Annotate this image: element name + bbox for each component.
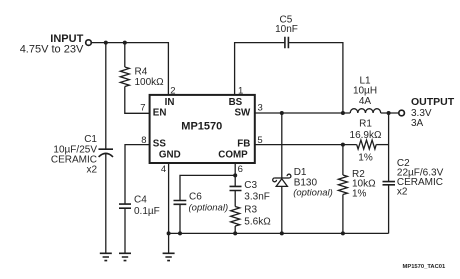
svg-text:6: 6 bbox=[238, 164, 243, 175]
node: output junction bbox=[387, 111, 391, 115]
wire: R4 branch upper bbox=[124, 43, 126, 67]
svg-text:C4: C4 bbox=[134, 195, 147, 206]
svg-text:R4: R4 bbox=[135, 66, 148, 77]
wire: COMP pin 6 to C3 bbox=[234, 163, 236, 186]
wire: C2 lower bbox=[388, 185, 390, 234]
svg-text:4.75V to 23V: 4.75V to 23V bbox=[20, 44, 84, 56]
wire: C1 branch lower bbox=[105, 154, 107, 253]
capacitor C1 bbox=[99, 149, 114, 157]
svg-text:7: 7 bbox=[140, 103, 145, 114]
output terminal bbox=[399, 110, 405, 116]
wire: rail to ground bbox=[168, 233, 170, 253]
wire: SW pin 3 bbox=[255, 112, 350, 114]
svg-text:1: 1 bbox=[238, 86, 243, 97]
svg-text:3A: 3A bbox=[411, 118, 424, 129]
svg-text:100kΩ: 100kΩ bbox=[135, 77, 165, 88]
inductor L1 bbox=[350, 109, 381, 113]
capacitor C6 bbox=[174, 201, 187, 205]
svg-text:MP1570: MP1570 bbox=[181, 121, 222, 133]
svg-text:R1: R1 bbox=[359, 118, 372, 129]
wire: C5 right to SW node bbox=[289, 43, 343, 113]
node: rail at D1 bbox=[280, 231, 284, 235]
wire: C6 lower bbox=[179, 204, 181, 233]
node: FB to R2 bbox=[341, 143, 345, 147]
op-amp U1: MP1570 IC body bbox=[150, 95, 255, 163]
wire: C4 lower bbox=[124, 208, 126, 253]
wire: R2 lower bbox=[342, 195, 344, 234]
wire: C6 branch from COMP bbox=[180, 175, 235, 200]
diode D1 (schottky, optional) bbox=[273, 174, 291, 186]
node: SW to C5 bbox=[341, 111, 345, 115]
capacitor C4 bbox=[119, 204, 131, 208]
svg-text:C6: C6 bbox=[189, 192, 202, 203]
capacitor C3 bbox=[230, 186, 242, 190]
svg-text:R3: R3 bbox=[244, 205, 257, 216]
svg-text:FB: FB bbox=[237, 138, 250, 149]
svg-text:4: 4 bbox=[161, 164, 166, 175]
svg-text:x2: x2 bbox=[86, 165, 97, 176]
wire: C3 to R3 bbox=[234, 191, 236, 207]
resistor R4 bbox=[120, 67, 129, 87]
wire: D1 branch from SW bbox=[281, 113, 283, 178]
svg-text:3.3V: 3.3V bbox=[411, 108, 432, 119]
capacitor C2 bbox=[383, 182, 396, 185]
svg-text:16.9kΩ: 16.9kΩ bbox=[350, 130, 382, 141]
ground: below C1 bbox=[100, 253, 112, 260]
svg-text:3: 3 bbox=[258, 103, 263, 114]
wire: FB pin 5 bbox=[255, 144, 357, 146]
svg-text:(optional): (optional) bbox=[293, 188, 333, 199]
svg-text:8: 8 bbox=[141, 135, 146, 146]
svg-text:OUTPUT: OUTPUT bbox=[411, 96, 455, 108]
node: SW to D1 bbox=[280, 111, 284, 115]
wire: output drop to R1/C2 bbox=[388, 113, 390, 182]
wire: SS pin 8 to C4 bbox=[125, 145, 150, 205]
node: rail at R3 bbox=[233, 231, 237, 235]
node: rail at R2 bbox=[341, 231, 345, 235]
node: COMP to C6 bbox=[233, 173, 237, 177]
svg-text:2: 2 bbox=[170, 86, 175, 97]
wire: R2 upper bbox=[342, 145, 344, 175]
node: rail at pin 4 bbox=[167, 231, 171, 235]
svg-text:C3: C3 bbox=[244, 180, 257, 191]
svg-text:1%: 1% bbox=[352, 188, 367, 199]
wire: L1 to output bbox=[381, 112, 399, 114]
svg-text:10nF: 10nF bbox=[275, 24, 298, 35]
svg-text:GND: GND bbox=[159, 150, 181, 161]
wire: input rail to pin 2 bbox=[92, 43, 169, 95]
wire: BS pin 1 to C5 left bbox=[235, 43, 285, 95]
svg-text:EN: EN bbox=[153, 108, 167, 119]
svg-text:MP1570_TAC01: MP1570_TAC01 bbox=[403, 264, 447, 270]
node: input junction to C1 bbox=[104, 41, 108, 45]
svg-text:COMP: COMP bbox=[218, 150, 248, 161]
svg-text:x2: x2 bbox=[397, 187, 408, 198]
svg-text:SW: SW bbox=[235, 108, 252, 119]
svg-text:IN: IN bbox=[165, 97, 175, 108]
wire: GND pin 4 bbox=[168, 163, 170, 233]
resistor R3 bbox=[231, 207, 240, 227]
ground: below C4 bbox=[119, 253, 131, 260]
svg-text:0.1µF: 0.1µF bbox=[134, 206, 160, 217]
resistor R2 bbox=[338, 175, 347, 195]
wire: R3 lower bbox=[234, 226, 236, 233]
svg-text:4A: 4A bbox=[359, 96, 372, 107]
node: rail at C6 bbox=[178, 231, 182, 235]
svg-text:1%: 1% bbox=[358, 152, 373, 163]
svg-text:BS: BS bbox=[229, 97, 243, 108]
svg-text:3.3nF: 3.3nF bbox=[244, 192, 270, 203]
capacitor C5 bbox=[285, 37, 289, 49]
svg-text:(optional): (optional) bbox=[189, 203, 229, 214]
svg-text:5.6kΩ: 5.6kΩ bbox=[244, 217, 271, 228]
resistor R1 bbox=[357, 140, 377, 149]
wire: C1 branch upper bbox=[105, 43, 107, 150]
wire: D1 lower bbox=[281, 186, 283, 233]
node: input junction to R4 bbox=[123, 41, 127, 45]
wire: bottom rail bbox=[169, 232, 389, 234]
input terminal bbox=[86, 40, 92, 46]
wire: R1 to output drop bbox=[376, 144, 388, 146]
svg-text:5: 5 bbox=[257, 135, 262, 146]
ground: main bbox=[163, 253, 175, 260]
wire: R4 to EN pin 7 bbox=[125, 87, 150, 114]
svg-text:SS: SS bbox=[153, 138, 167, 149]
